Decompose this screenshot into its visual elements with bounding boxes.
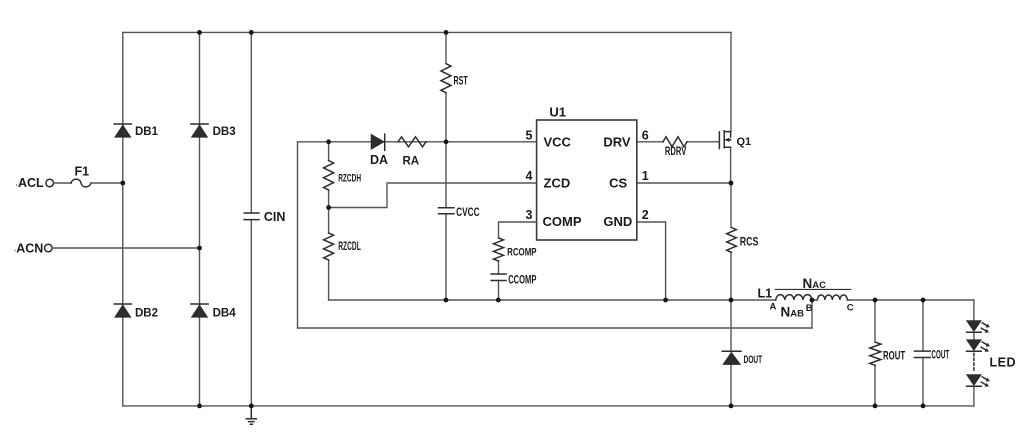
label RCS [740, 236, 759, 248]
capacitor CVCC [439, 208, 454, 214]
stray dot before ACL [16, 184, 17, 186]
pin number 3 [526, 208, 533, 222]
svg-text:A: A [770, 302, 777, 313]
wire B to C gap [812, 299, 850, 301]
wire aux vertical [297, 142, 299, 328]
wire dotted LED continuation [973, 354, 975, 373]
resistor RA [398, 137, 426, 147]
label RZCDH [338, 172, 361, 184]
capacitor CCOMP [491, 274, 506, 281]
svg-text:6: 6 [642, 129, 649, 143]
wire Q1 drain drop [730, 32, 732, 131]
label CIN [264, 210, 286, 224]
label DB1 [135, 126, 159, 138]
label NAC [803, 276, 827, 291]
diode DOUT [722, 351, 741, 364]
terminal ACN [45, 244, 53, 252]
svg-text:GND: GND [603, 214, 632, 229]
terminal ACL [46, 179, 54, 187]
svg-text:1: 1 [642, 169, 649, 183]
svg-text:Q1: Q1 [737, 136, 752, 148]
svg-text:DRV: DRV [603, 135, 631, 150]
svg-text:DB1: DB1 [135, 126, 159, 138]
svg-text:CCOMP: CCOMP [508, 274, 537, 287]
svg-text:ACL: ACL [18, 176, 44, 190]
inductor L1 winding B-C [817, 295, 847, 300]
LED D1 [967, 321, 990, 333]
wire RST/CVCC column low [445, 214, 447, 300]
wire RST/CVCC column top [445, 32, 447, 63]
pin 2 label GND [603, 214, 632, 229]
junction dots (all nodes) [120, 30, 925, 408]
svg-text:L1: L1 [758, 287, 773, 301]
wire fuse to bridge [91, 182, 123, 184]
label terminal A [770, 302, 777, 313]
label DB4 [213, 308, 237, 320]
label F1 [75, 165, 90, 179]
diode DB1 [114, 124, 131, 137]
pin number 4 [526, 169, 533, 183]
resistor RCOMP [494, 238, 504, 261]
label RST [454, 75, 468, 88]
pin number 6 [642, 129, 649, 143]
diode DA [371, 134, 385, 150]
op-amp U1 (controller IC box) [537, 120, 637, 240]
svg-text:RA: RA [403, 155, 420, 167]
svg-text:ACN: ACN [16, 241, 43, 255]
LED D2 [967, 340, 990, 352]
wire LED string column [973, 300, 975, 406]
label COUT [931, 349, 949, 361]
wire COUT leads [922, 300, 924, 406]
pin 3 label COMP [543, 214, 582, 229]
transistor Q1 [717, 131, 731, 149]
svg-text:RZCDL: RZCDL [338, 239, 361, 252]
svg-text:F1: F1 [75, 165, 90, 179]
pin 5 label VCC [544, 135, 572, 150]
svg-text:5: 5 [526, 129, 533, 143]
wire COMP drop [499, 222, 537, 300]
wire ZCD path [329, 183, 537, 208]
wire Q1 source to CS [730, 147, 732, 183]
svg-text:3: 3 [526, 208, 533, 222]
wire aux bottom run [298, 327, 813, 329]
svg-text:DOUT: DOUT [744, 353, 763, 365]
wire RCS leads [730, 183, 732, 300]
svg-text:DB3: DB3 [213, 126, 236, 138]
resistor RST [441, 64, 451, 93]
svg-text:CS: CS [609, 175, 627, 190]
label DOUT [744, 353, 763, 365]
label DB2 [135, 308, 158, 320]
svg-text:RCOMP: RCOMP [507, 246, 537, 259]
wire ROUT leads [874, 300, 876, 406]
wire VCC line (aux to DA/RA to pin5) [298, 141, 537, 143]
wire bottom rail [123, 405, 974, 407]
label DA [370, 153, 388, 167]
capacitor CIN [244, 213, 259, 220]
wire L1 C to output [847, 299, 974, 301]
label LED [990, 356, 1017, 370]
svg-text:COUT: COUT [931, 349, 949, 361]
label CCOMP [508, 274, 537, 287]
label RZCDL [338, 239, 361, 252]
svg-text:CIN: CIN [264, 210, 286, 224]
wire DB3/DB4 column [199, 32, 201, 406]
pin 1 label CS [609, 175, 627, 190]
wire top rail [123, 31, 731, 33]
wire ground net [329, 299, 776, 301]
svg-text:RDRV: RDRV [665, 146, 687, 159]
label ACL [18, 176, 44, 190]
label terminal B [806, 303, 813, 314]
inductor L1 winding A-B [776, 295, 812, 300]
resistor ROUT [870, 342, 881, 365]
label DB3 [213, 126, 236, 138]
label U1 [549, 105, 566, 120]
svg-text:B: B [806, 303, 813, 314]
pin number 5 [526, 129, 533, 143]
svg-text:2: 2 [642, 208, 649, 222]
wire NAB tap riser [811, 300, 813, 328]
label terminal C [847, 302, 854, 313]
svg-text:COMP: COMP [543, 214, 582, 229]
svg-text:C: C [847, 302, 854, 313]
svg-text:ZCD: ZCD [544, 175, 571, 190]
resistor RZCDH [324, 161, 334, 191]
wire CIN column lower [250, 220, 252, 406]
label Q1 [737, 136, 752, 148]
svg-text:LED: LED [990, 356, 1017, 370]
svg-text:4: 4 [526, 169, 533, 183]
wire left column (DB1/DB2) [122, 32, 124, 406]
svg-text:RCS: RCS [740, 236, 759, 248]
wire CIN column upper [250, 32, 252, 213]
diode DB4 [191, 304, 208, 317]
svg-text:DA: DA [370, 153, 388, 167]
fuse F1 [71, 179, 91, 187]
resistor RDRV [663, 137, 687, 147]
label RDRV [665, 146, 687, 159]
svg-text:U1: U1 [549, 105, 566, 120]
label L1 [758, 287, 773, 301]
label ROUT [883, 350, 905, 363]
wire RZCDH/RZCDL column [328, 142, 330, 300]
wire ACN to bridge [52, 247, 199, 249]
wire GND pin drop [637, 222, 666, 300]
stray dot before ACN [14, 250, 15, 252]
svg-text:DB2: DB2 [135, 308, 158, 320]
wire ACL to fuse [54, 182, 72, 184]
resistor RZCDL [324, 233, 334, 260]
svg-text:VCC: VCC [544, 135, 572, 150]
pin 6 label DRV [603, 135, 631, 150]
label CVCC [456, 207, 479, 220]
svg-text:CVCC: CVCC [456, 207, 479, 220]
svg-text:RZCDH: RZCDH [338, 172, 361, 184]
label NAB [781, 305, 805, 320]
wire CS line [637, 182, 731, 184]
LED D3 [967, 375, 990, 387]
svg-text:RST: RST [454, 75, 468, 88]
svg-text:ROUT: ROUT [883, 350, 905, 363]
diode DB3 [191, 124, 208, 137]
pin 4 label ZCD [544, 175, 571, 190]
label RCOMP [507, 246, 537, 259]
resistor RCS [727, 228, 737, 253]
label ACN [16, 241, 43, 255]
line NAC winding bracket [775, 288, 852, 290]
pin number 1 [642, 169, 649, 183]
wire DOUT column [730, 300, 732, 406]
wire RST/CVCC column mid [445, 93, 447, 208]
pin number 2 [642, 208, 649, 222]
ground symbol [246, 406, 256, 424]
diode DB2 [114, 304, 131, 317]
capacitor COUT [915, 351, 931, 357]
svg-text:DB4: DB4 [213, 308, 237, 320]
wire DRV line [637, 141, 717, 143]
label RA [403, 155, 420, 167]
